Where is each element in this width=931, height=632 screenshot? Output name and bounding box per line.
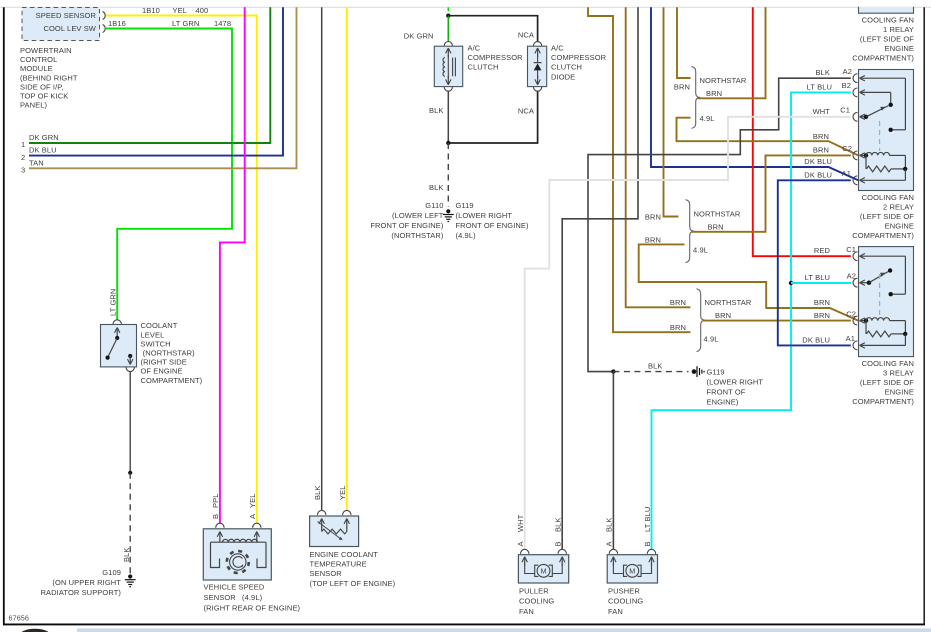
label YEL vertical ect [338,486,347,500]
cooling fan 2 relay label [852,193,914,240]
svg-text:BLK: BLK [429,183,443,192]
wire 1 DK GRN [29,7,270,143]
svg-text:A: A [605,541,614,546]
connector at cool lev sw pin [103,25,106,33]
svg-text:2: 2 [21,153,25,162]
puller cooling fan label [519,587,554,616]
label BLK vertical g109 [122,548,131,562]
svg-text:FRONT OF ENGINE): FRONT OF ENGINE) [456,221,530,230]
svg-text:LT GRN: LT GRN [172,19,199,28]
puller fan pin letter A [516,541,525,546]
wire BLK to ect sensor [321,7,323,510]
puller fan label WHT vertical [516,514,525,532]
svg-text:YEL: YEL [173,6,187,15]
svg-text:B2: B2 [842,81,851,90]
ground G119 mid label [707,368,764,407]
diagram top edge line [0,6,931,8]
svg-text:C2: C2 [842,144,852,153]
svg-text:NORTHSTAR: NORTHSTAR [705,298,752,307]
svg-text:67656: 67656 [9,614,30,623]
svg-text:LT BLU: LT BLU [807,82,832,91]
relay2 switch internals [860,78,906,151]
label BLK ac gnd [429,183,443,192]
svg-text:3 RELAY: 3 RELAY [883,369,914,378]
relay2 coil and resistor [860,152,908,180]
svg-text:COOL LEV SW: COOL LEV SW [43,24,96,33]
puller fan pin letter B [554,541,563,546]
label 1B16 [108,19,126,28]
label LT GRN vertical [108,289,117,316]
svg-text:BLK: BLK [429,106,443,115]
svg-text:COMPARTMENT): COMPARTMENT) [141,376,203,385]
svg-text:COMPARTMENT): COMPARTMENT) [852,397,914,406]
svg-text:DK BLU: DK BLU [802,335,830,344]
svg-text:M: M [540,567,546,576]
svg-text:COOLING: COOLING [519,597,554,606]
svg-text:SENSOR: SENSOR [204,593,237,602]
svg-text:NORTHSTAR: NORTHSTAR [700,76,747,85]
svg-text:BRN: BRN [715,311,731,320]
svg-text:3: 3 [21,166,25,175]
wire BRN feeder B [626,7,691,307]
svg-text:SENSOR: SENSOR [310,569,343,578]
svg-text:1478: 1478 [214,19,231,28]
label B PPL vertical [211,494,220,519]
label TAN [29,158,44,167]
svg-text:B: B [554,541,563,546]
svg-text:A: A [248,514,257,519]
svg-text:COMPARTMENT): COMPARTMENT) [852,53,914,62]
label 400 [196,6,209,15]
svg-text:BRN: BRN [645,213,661,222]
svg-text:BRN: BRN [813,146,829,155]
svg-text:BLK: BLK [313,486,322,500]
svg-text:WHT: WHT [813,107,831,116]
svg-text:1B16: 1B16 [108,19,126,28]
svg-text:BRN: BRN [670,323,686,332]
label BRN relay2 c2 upper [813,132,829,141]
connector at diode top [533,42,541,47]
label 4.9L brace3 [704,335,719,344]
label WHT relay2 [813,107,831,116]
svg-text:CONTROL: CONTROL [20,55,57,64]
connector at diode bottom [533,87,541,92]
cooling fan 1 relay label [852,15,914,62]
junction dot ac clutch feed [446,14,450,18]
coolant level switch box [101,325,137,367]
svg-text:(RIGHT REAR OF ENGINE): (RIGHT REAR OF ENGINE) [204,604,301,613]
wire BLK ac clutch bottom [447,91,449,143]
svg-text:400: 400 [196,6,209,15]
wire PPL to vss [220,7,245,523]
connector at ac clutch top [444,42,452,47]
pusher fan pin letter A [605,541,614,546]
svg-text:FRONT OF: FRONT OF [707,388,746,397]
wire 3 TAN [29,7,297,168]
wire BRN brace3 output to relay3 C2 [703,320,851,322]
label BRN brace2 NS [645,213,661,222]
svg-text:4.9L: 4.9L [704,335,719,344]
connector at vss pin A [253,523,261,528]
wire BLK from coolant level switch [129,372,131,473]
connector at coolant level switch bottom [126,367,134,372]
label BRN brace1 NS [674,83,690,92]
ground G110 G119 [443,209,454,221]
svg-text:BRN: BRN [670,298,686,307]
wire DK GRN to ac clutch [447,16,449,42]
svg-text:(LOWER RIGHT: (LOWER RIGHT [456,211,513,220]
svg-text:A1: A1 [842,169,851,178]
svg-text:LEVEL: LEVEL [141,330,165,339]
brace grouping relay3 C2 [697,289,706,352]
wire BRN brace1 49L to relay2 C2 [677,118,859,156]
svg-text:(LEFT SIDE OF: (LEFT SIDE OF [860,34,914,43]
brace grouping relay2 C2 [692,67,701,129]
ac clutch diode label [551,44,607,82]
label NORTHSTAR brace3 [705,298,752,307]
label 1 [21,140,25,149]
svg-text:C2: C2 [846,309,856,318]
ac compressor clutch label [468,44,524,72]
wire DK BLU relay2 A1 lower to relay3 A1 [778,180,851,345]
ac compressor clutch diode box D1 [528,46,547,86]
junction dot lt blu [789,281,793,285]
wire BRN brace2 49L to relay3 C2 [639,244,859,320]
connector at speed sensor pin [103,12,106,20]
pusher fan label LT BLU vertical [643,507,652,532]
label NCA top [518,31,534,40]
svg-text:A2: A2 [843,67,852,76]
wire BLK dashed to G109 [129,473,131,575]
taskbar strip [77,628,931,632]
svg-text:YEL: YEL [338,486,347,500]
svg-text:COMPARTMENT): COMPARTMENT) [852,231,914,240]
logo ellipse bottom left [19,629,52,632]
pusher cooling fan label [608,587,643,616]
coolant level switch internals [106,328,133,365]
label YEL [173,6,187,15]
svg-text:COOLING FAN: COOLING FAN [862,359,914,368]
label DK BLU [29,146,57,155]
svg-text:(4.9L): (4.9L) [242,593,263,602]
vehicle speed sensor internals [211,532,267,574]
wire LT BLU relay2 B2 net [652,92,851,549]
svg-text:CLUTCH: CLUTCH [551,63,582,72]
svg-text:A: A [516,541,525,546]
svg-text:YEL: YEL [248,494,257,508]
pcm description text [20,46,78,110]
svg-text:1 RELAY: 1 RELAY [883,25,914,34]
wire BRN brace2 output to relay2 C2 [692,155,851,231]
svg-text:BRN: BRN [706,89,722,98]
wire diode bottom to junction [448,91,537,143]
label BRN brace2 out [708,222,724,231]
label BRN brace3 NS [670,298,686,307]
relay3 switch internals [860,256,906,316]
label NORTHSTAR brace1 [700,76,747,85]
svg-text:A2: A2 [847,272,856,281]
cooling fan 3 relay box [859,247,914,357]
svg-text:BLK: BLK [554,518,563,532]
wire DK GRN from top to junction [447,7,449,11]
label 2 [21,153,25,162]
svg-text:NCA: NCA [518,31,534,40]
svg-text:BLK: BLK [605,518,614,532]
svg-text:A/C: A/C [551,44,564,53]
svg-text:PULLER: PULLER [519,587,549,596]
ect sensor internals [318,519,350,541]
svg-text:FAN: FAN [519,607,534,616]
svg-text:(RIGHT SIDE: (RIGHT SIDE [141,358,187,367]
svg-text:COOLANT: COOLANT [141,321,178,330]
connector at ect pin BLK [318,510,326,515]
svg-text:4.9L: 4.9L [700,114,715,123]
svg-text:(NORTHSTAR): (NORTHSTAR) [391,231,443,240]
wire LT GRN 1478 cool lev sw [106,29,232,320]
svg-text:BRN: BRN [708,222,724,231]
svg-text:PPL: PPL [211,494,220,508]
svg-text:OF ENGINE: OF ENGINE [141,367,183,376]
wire DK BLU feeder to relay2 A1 [651,7,858,180]
svg-text:LT BLU: LT BLU [643,507,652,532]
svg-text:A/C: A/C [468,44,481,53]
svg-text:NORTHSTAR: NORTHSTAR [694,210,741,219]
svg-text:BLK: BLK [648,362,662,371]
diagram left border [3,7,5,624]
label 1B10 [142,6,160,15]
svg-text:PUSHER: PUSHER [608,587,640,596]
svg-text:2 RELAY: 2 RELAY [883,203,914,212]
svg-text:COOLING FAN: COOLING FAN [862,15,914,24]
junction dot on BLK wire [128,471,132,475]
svg-text:TOP OF KICK: TOP OF KICK [20,92,68,101]
ground G119 label a [456,201,530,240]
svg-text:TAN: TAN [29,158,44,167]
svg-text:(LOWER RIGHT: (LOWER RIGHT [707,378,764,387]
svg-text:DK GRN: DK GRN [29,133,59,142]
diagram number 67656 [9,614,30,623]
label BLK g119 [648,362,662,371]
label DK BLU relay3 [802,335,830,344]
connector at vss pin B [216,523,224,528]
label NORTHSTAR brace2 [694,210,741,219]
engine coolant temperature sensor box [310,516,359,547]
vehicle speed sensor box [203,529,271,580]
label BLK vertical ect [313,486,322,500]
svg-text:(NORTHSTAR): (NORTHSTAR) [141,349,196,358]
label BRN brace3 out [715,311,731,320]
svg-text:G109: G109 [102,568,121,577]
svg-text:(LEFT SIDE OF: (LEFT SIDE OF [860,378,914,387]
wire BRN brace1 output to top [698,7,766,98]
junction dot ac ground [446,141,450,145]
svg-text:DK BLU: DK BLU [804,171,832,180]
wire BRN feeder A jog [588,7,691,332]
svg-text:BLK: BLK [816,68,830,77]
svg-text:(BEHIND RIGHT: (BEHIND RIGHT [20,73,78,82]
pusher fan pin letter B [643,541,652,546]
svg-text:FAN: FAN [608,607,623,616]
svg-text:(TOP LEFT OF ENGINE): (TOP LEFT OF ENGINE) [310,579,396,588]
pusher fan label BLK vertical [605,518,614,532]
wire to clutch diode [448,16,537,42]
diagram right border [923,7,925,624]
svg-text:VEHICLE SPEED: VEHICLE SPEED [204,583,265,592]
puller cooling fan motor M1 [518,549,568,583]
svg-text:COMPRESSOR: COMPRESSOR [468,53,524,62]
label NCA bottom [518,107,534,116]
label BRN relay3 c2 lower [814,311,830,320]
wire WHT relay2 C1 net [525,117,851,550]
svg-text:DK GRN: DK GRN [404,31,434,40]
svg-text:WHT: WHT [516,514,525,532]
svg-text:ENGINE): ENGINE) [707,398,739,407]
svg-text:B: B [643,541,652,546]
svg-text:(4.9L): (4.9L) [456,231,477,240]
dot at G119 mid [692,369,697,374]
svg-text:RED: RED [814,246,831,255]
wire LT BLU branch to relay3 A2 [791,282,851,284]
svg-text:BRN: BRN [814,311,830,320]
connector at ac clutch bottom [444,87,452,92]
svg-text:A1: A1 [846,334,855,343]
junction dot blk ground mid [611,369,615,373]
pin COOL LEV SW label [43,24,96,33]
label LT BLU relay3 [805,273,830,282]
svg-text:LT BLU: LT BLU [805,273,830,282]
svg-text:SPEED SENSOR: SPEED SENSOR [36,11,97,20]
puller fan label BLK vertical [554,518,563,532]
wire BLK relay2 A2 net [588,78,851,371]
svg-text:1: 1 [21,140,25,149]
brace grouping relay2 C2 lower [686,200,695,263]
label DK GRN [29,133,59,142]
coolant level switch label [141,321,203,385]
label LT BLU relay2 [807,82,832,91]
label LT GRN [172,19,199,28]
svg-text:G119: G119 [707,368,725,377]
wire 2 DK BLU [29,7,283,155]
svg-text:ENGINE: ENGINE [885,222,914,231]
label 3 [21,166,25,175]
wire BLK to pusher fan A [612,372,614,550]
cooling fan 2 relay box [859,70,914,191]
label BLK relay2 [816,68,830,77]
svg-text:BRN: BRN [674,83,690,92]
relay3 pin connectors and ids [846,245,865,350]
svg-text:(LOWER LEFT: (LOWER LEFT [392,211,444,220]
svg-text:BRN: BRN [813,132,829,141]
label BRN relay3 c2 upper [814,298,830,307]
wire BRN feeder to brace2 NS [664,7,679,216]
svg-text:LT GRN: LT GRN [108,289,117,316]
engine coolant temperature sensor label [310,550,396,588]
svg-text:SIDE OF I/P,: SIDE OF I/P, [20,82,64,91]
wire BLK feeder to puller fan [562,7,638,549]
svg-text:(ON UPPER RIGHT: (ON UPPER RIGHT [52,578,121,587]
label DK BLU relay2 upper [804,157,832,166]
svg-text:1B10: 1B10 [142,6,160,15]
label RED [814,246,831,255]
label DK BLU relay2 lower [804,171,832,180]
svg-text:BLK: BLK [122,548,131,562]
wire BLK dashed to G119 mid [613,371,688,373]
label A YEL vertical [248,494,257,519]
diagram bottom border [3,623,925,625]
label BRN brace3 49L [670,323,686,332]
svg-text:PANEL): PANEL) [20,101,48,110]
wire RED feeder to relay3 C1 [753,7,851,256]
label BRN brace1 out [706,89,722,98]
svg-text:DK BLU: DK BLU [29,146,57,155]
label DK GRN ac [404,31,434,40]
svg-text:G110: G110 [425,201,443,210]
ground G109 label [41,568,122,597]
connector at ect pin YEL [343,510,351,515]
ground G109 [125,574,136,586]
svg-text:BRN: BRN [645,235,661,244]
svg-text:MODULE: MODULE [20,64,53,73]
svg-text:DK BLU: DK BLU [804,157,832,166]
svg-text:COMPRESSOR: COMPRESSOR [551,53,607,62]
svg-text:ENGINE: ENGINE [885,44,914,53]
ac compressor clutch box U1 [434,46,462,86]
connector at coolant level switch top [113,320,121,325]
svg-text:CLUTCH: CLUTCH [468,63,499,72]
wire YEL 400 speed sensor [106,16,257,524]
svg-text:C1: C1 [846,245,856,254]
svg-text:4.9L: 4.9L [693,246,708,255]
label BRN brace2 49L [645,235,661,244]
svg-text:ENGINE COOLANT: ENGINE COOLANT [310,550,379,559]
relay3 coil and resistor [860,318,908,346]
svg-text:C1: C1 [840,106,850,115]
powertrain control module box [22,8,100,41]
cooling fan 1 relay box partial [859,7,914,13]
cooling fan 3 relay label [852,359,914,406]
wire BRN feeder to brace1 NS [677,7,691,78]
label 1478 [214,19,231,28]
svg-text:NCA: NCA [518,107,534,116]
svg-text:DIODE: DIODE [551,72,575,81]
ac compressor clutch internals [443,48,455,85]
svg-text:POWERTRAIN: POWERTRAIN [20,46,72,55]
label 4.9L brace2 [693,246,708,255]
svg-text:M: M [629,567,635,576]
svg-text:COOLING: COOLING [608,597,643,606]
pin SPEED SENSOR label [36,11,97,20]
svg-text:TEMPERATURE: TEMPERATURE [310,560,367,569]
wire BLK dashed to G110 [447,143,449,207]
svg-text:BRN: BRN [814,298,830,307]
label BRN relay2 c2 lower [813,146,829,155]
svg-text:(LEFT SIDE OF: (LEFT SIDE OF [860,212,914,221]
label 4.9L brace1 [700,114,715,123]
svg-text:FRONT OF ENGINE): FRONT OF ENGINE) [370,221,444,230]
svg-text:G119: G119 [456,201,474,210]
ground G110 label [370,201,444,240]
svg-text:RADIATOR SUPPORT): RADIATOR SUPPORT) [41,588,122,597]
relay2 pin connectors and ids [840,67,865,185]
label BLK ac [429,106,443,115]
svg-text:SWITCH: SWITCH [141,339,171,348]
pusher cooling fan motor M2 [607,549,657,583]
vehicle speed sensor label [204,583,301,613]
wire YEL to ect sensor [346,7,348,510]
ac clutch diode internals [534,48,542,85]
ground G119 mid [697,366,704,377]
svg-text:ENGINE: ENGINE [885,388,914,397]
